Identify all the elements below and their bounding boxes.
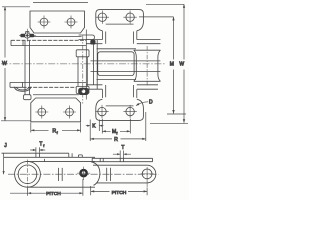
svg-text:W: W bbox=[179, 61, 184, 67]
plate-to-lip curves (bottom) bbox=[96, 99, 144, 108]
dimension W (right) bbox=[146, 4, 188, 123]
dimension R_f bbox=[31, 123, 81, 133]
attachment plate (top, left figure plan view) bbox=[30, 11, 85, 33]
dimension T bbox=[113, 151, 131, 159]
svg-text:J: J bbox=[4, 143, 7, 149]
dimension J bbox=[3, 153, 5, 174]
roller bbox=[18, 165, 37, 184]
bend line under top plate bbox=[33, 36, 82, 38]
right elevation: bushing lines bbox=[107, 168, 111, 181]
vertical centerline of right joint bbox=[82, 36, 84, 104]
chain elevation centerline bbox=[8, 173, 159, 175]
sectioned plate edges (verticals) bbox=[94, 40, 98, 90]
hole in right end bbox=[141, 167, 154, 187]
left elevation: link plate top edge bbox=[28, 161, 96, 163]
dimension M_f bbox=[102, 119, 130, 134]
svg-text:f: f bbox=[116, 132, 118, 136]
bend line above bottom plate bbox=[33, 94, 79, 96]
roller vertical centerline bbox=[146, 46, 148, 86]
bend tangent line bbox=[106, 23, 134, 25]
right elevation: bottom edge bbox=[97, 182, 148, 184]
roller (spool with concave sides) bbox=[134, 50, 161, 81]
right elevation: bend lip (left) bbox=[100, 158, 103, 162]
stray page line above left plate bbox=[33, 2, 88, 4]
hole in top plate (right) bbox=[65, 16, 78, 29]
right elevation: link plate top edge bbox=[93, 164, 147, 166]
left elevation: bend lip bbox=[36, 153, 40, 157]
right elevation: rounded right end bbox=[147, 165, 156, 183]
plate-to-lip curves (top) bbox=[96, 22, 144, 31]
dimension K bbox=[86, 120, 104, 142]
left elevation: bottom edge bbox=[28, 186, 96, 188]
retainer bar below pin bbox=[24, 95, 32, 100]
bend lips (bottom) bbox=[102, 85, 136, 98]
left elevation: attachment plate top surface bbox=[2, 152, 69, 154]
left elevation: chain top edge bbox=[4, 156, 95, 158]
hole in top plate (left) bbox=[38, 16, 51, 29]
hole top-left (right figure) bbox=[96, 11, 109, 24]
dimension PITCH (left) bbox=[10, 179, 83, 196]
dimension PITCH (right) bbox=[91, 186, 147, 195]
svg-text:T: T bbox=[39, 142, 42, 148]
svg-text:f: f bbox=[57, 131, 59, 135]
cross attachment plate (top, right figure) bbox=[96, 10, 144, 22]
chain edges beside lips (bottom) bbox=[87, 85, 159, 89]
pin (left joint) shaft bbox=[25, 41, 30, 95]
svg-text:D: D bbox=[149, 99, 153, 105]
leader and label D bbox=[136, 102, 148, 106]
svg-text:M: M bbox=[170, 61, 174, 67]
roller end circle (outer plate radius) bbox=[15, 161, 41, 187]
cotter stub (left, end-on) bbox=[90, 40, 95, 45]
dimension R bbox=[90, 112, 146, 141]
svg-text:T: T bbox=[121, 145, 124, 151]
hole bottom-left (right figure) bbox=[95, 105, 108, 118]
tick on link plate edge bbox=[43, 159, 45, 162]
bushing/roller (right joint of left figure) bbox=[76, 50, 89, 94]
right elevation: rounded left end bbox=[91, 162, 100, 186]
svg-text:K: K bbox=[92, 124, 96, 130]
bushing (sectioned, rounded rect) bbox=[98, 52, 134, 76]
cotter assembly at top of pin bbox=[19, 29, 36, 42]
inner horizontal edges bbox=[97, 49, 137, 80]
dimension T_f bbox=[30, 147, 45, 153]
svg-text:PITCH: PITCH bbox=[46, 191, 61, 197]
cotter pin bar protruding left bbox=[79, 35, 95, 40]
svg-text:R: R bbox=[114, 137, 118, 143]
chain edges beside lips (top) bbox=[87, 40, 161, 44]
chain plan view: outer plate edges bbox=[11, 39, 86, 41]
right elevation: attachment plate band bbox=[92, 158, 152, 161]
bend tangent line (bottom) bbox=[106, 105, 134, 107]
bushing lines of next joint bbox=[58, 168, 62, 181]
svg-text:f: f bbox=[43, 144, 45, 148]
svg-text:PITCH: PITCH bbox=[112, 190, 127, 196]
bend lips (top) bbox=[102, 31, 136, 44]
hole in bottom plate (left) bbox=[35, 106, 48, 119]
washer dish at bottom of pin bbox=[14, 87, 31, 92]
hole in bottom plate (right) bbox=[63, 106, 76, 119]
dimension M bbox=[139, 17, 186, 114]
break line between exterior and sectioned views bbox=[85, 30, 87, 100]
vertical centerline through roller bbox=[27, 160, 29, 190]
pin (sectioned, horizontal) bbox=[91, 61, 161, 72]
cotter at bottom of right joint bbox=[78, 88, 89, 95]
hole top-right (right figure) bbox=[123, 11, 136, 24]
lip of adjacent attachment link bbox=[79, 155, 83, 157]
cross attachment plate (bottom, right figure) bbox=[96, 108, 144, 120]
dimension W (left figure) bbox=[1, 7, 31, 121]
left elevation: plate end step bbox=[69, 153, 72, 157]
right elevation: bend lip (at T) bbox=[120, 158, 123, 161]
hole bottom-right (right figure) bbox=[123, 105, 136, 118]
chain longitudinal centerline bbox=[1, 63, 166, 65]
pin end (dark ring) bbox=[77, 167, 90, 180]
attachment plate (bottom, left figure plan view) bbox=[31, 98, 81, 122]
